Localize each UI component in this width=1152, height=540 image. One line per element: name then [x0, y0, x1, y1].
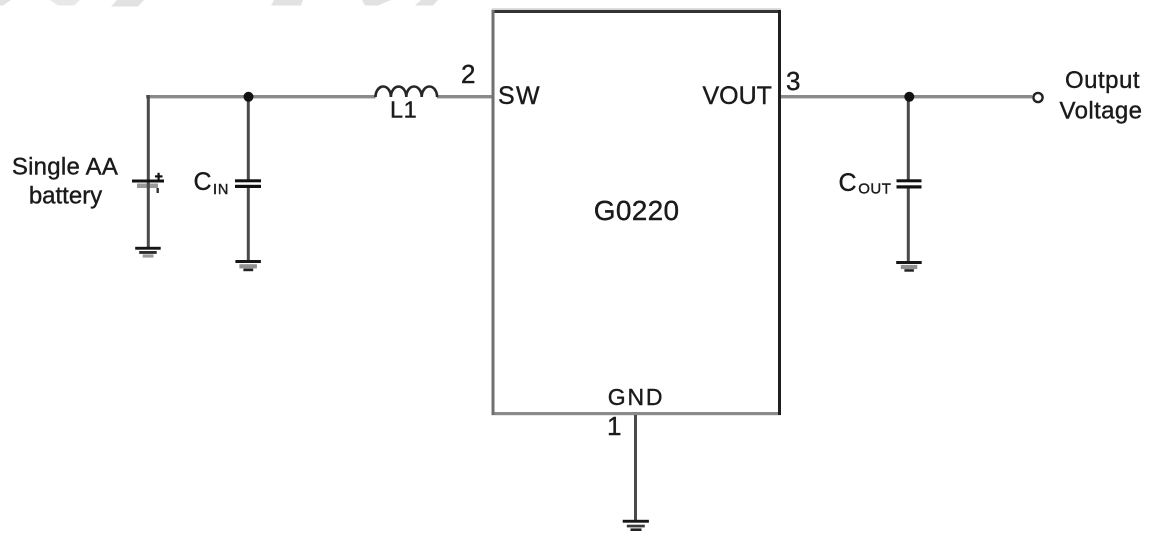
svg-text:Voltage: Voltage	[1060, 98, 1143, 125]
svg-text:2: 2	[461, 59, 475, 89]
svg-text:GND: GND	[608, 384, 665, 410]
svg-text:VOUT: VOUT	[703, 82, 772, 110]
svg-text:Output: Output	[1065, 67, 1140, 94]
svg-text:1: 1	[607, 411, 621, 441]
svg-text:C: C	[839, 169, 857, 197]
svg-text:SW: SW	[498, 82, 541, 110]
svg-text:IN: IN	[213, 182, 229, 198]
svg-text:G0220: G0220	[594, 195, 680, 226]
svg-text:battery: battery	[29, 183, 102, 210]
svg-text:OUT: OUT	[858, 181, 891, 198]
svg-text:C: C	[194, 168, 212, 196]
svg-text:Single AA: Single AA	[12, 154, 118, 181]
svg-text:L1: L1	[390, 97, 417, 123]
svg-text:3: 3	[786, 66, 800, 96]
